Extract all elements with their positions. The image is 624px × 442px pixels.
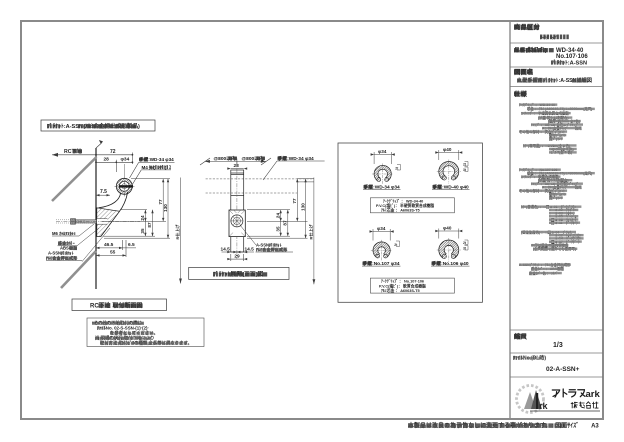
svg-text:7.5: 7.5 [100,189,107,195]
svg-text:14.5: 14.5 [245,247,255,253]
left leader labels [46,224,110,262]
ring WD-40 top-right [437,160,461,184]
svg-text:@800以内: @800以内 [214,155,236,162]
right vertical dims middle view [247,178,314,285]
title block: 縮尺 [514,331,563,349]
dim 72 top [96,153,132,165]
wall face line [95,148,97,289]
svg-text:P.V.C(塩ﾋﾞ)： 軟質合成樹脂: P.V.C(塩ﾋﾞ)： 軟質合成樹脂 [379,283,426,288]
dim 28 / phi34 [96,160,132,172]
logo text 株式会社 (pseudo-kanji strokes) [571,402,599,409]
svg-text:ｱﾙﾐ芯金 ： A6063S-T5: ｱﾙﾐ芯金 ： A6063S-T5 [381,208,420,213]
bracket wall plate + hatched section [97,208,120,237]
svg-text:6.5: 6.5 [128,242,135,248]
mini thickness label TL [397,165,401,171]
title block row dividers [510,43,603,377]
dim phi40 TR [435,147,462,160]
bottom dims 14.5 14.5 29 [222,252,255,261]
wall break line lower (thick gray diagonal) [61,251,96,288]
svg-text:1/3: 1/3 [553,342,563,349]
ring No.106 bottom-right [437,238,461,262]
svg-text:28: 28 [234,163,240,169]
title block: 商品区分 [514,22,558,40]
title block: 品番(製品名) [514,46,588,67]
leader to A-SSN label [240,225,256,245]
notes box [87,318,204,347]
svg-text:No.107·106: No.107·106 [556,54,588,60]
svg-text:24: 24 [140,215,145,221]
svg-text:130: 130 [300,203,305,211]
anchor hole with washer flower [231,215,243,227]
svg-text:WD-34·40: WD-34·40 [556,48,584,54]
anchor hole slot in plate [97,219,108,225]
mini thickness label BL [396,241,400,247]
svg-text:02-A-SSN+: 02-A-SSN+ [546,366,580,373]
RC下地 取付断面図 box [72,299,167,311]
M4 screw dark bar [120,185,134,187]
wall break line upper (thick gray diagonal) [52,157,97,201]
ring No.107 bottom-left [371,240,392,261]
svg-text:35: 35 [275,226,280,232]
svg-text:29: 29 [234,254,240,260]
svg-text:14.5: 14.5 [221,247,231,253]
svg-text:ark: ark [586,389,601,400]
svg-text:24: 24 [275,213,280,219]
svg-text:φ34: φ34 [121,157,130,163]
svg-text:ｱｰｸｸﾞﾘｯﾌﾟ ： No.107·106: ｱｰｸｸﾞﾘｯﾌﾟ ： No.107·106 [381,279,424,284]
svg-text:72: 72 [110,149,116,155]
@800以内 dim line [200,155,271,165]
pseudo-glyph ink overlay for CJK text [46,25,587,428]
svg-text:ｱﾙﾐ芯金 ： A6063S-T5: ｱﾙﾐ芯金 ： A6063S-T5 [381,288,420,293]
label box bracket A-SSN top-left [41,120,155,131]
dim phi40 BR [435,225,462,238]
svg-text:φ40: φ40 [443,225,452,230]
bracket arm curved [99,193,121,208]
section cut mark top [96,141,103,149]
svg-text:rk: rk [539,401,549,411]
mini thickness label TR [465,162,469,172]
anchor bolt M6 [56,219,140,225]
right vertical dims of section view [102,178,181,284]
dim 7.5 [96,194,110,196]
svg-text:77: 77 [158,199,163,205]
handrail circle section [115,164,135,197]
svg-text:@800以内: @800以内 [242,155,264,162]
title block: 図面名 [514,67,592,84]
svg-text:R仕上げ: R仕上げ [174,224,180,240]
svg-text:φ34: φ34 [377,226,386,231]
RC下地 label with arrow [52,147,96,157]
spec block 2 (No.107/106) [519,167,592,251]
svg-text:46.5: 46.5 [104,242,114,248]
handrail hidden dashed lines [206,161,314,259]
ブラケット展開(正面)図 box [189,267,289,279]
svg-text:55: 55 [110,250,116,256]
svg-text:φ34: φ34 [378,149,387,154]
bracket stem front view [231,170,244,252]
svg-text:28: 28 [104,157,110,163]
mid text box [370,198,454,213]
svg-text:ｱｰｸｸﾞﾘｯﾌﾟ ： WD-34·40: ｱｰｸｸﾞﾘｯﾌﾟ ： WD-34·40 [383,198,423,203]
svg-text:35: 35 [140,228,145,234]
logo gear mark [517,386,544,413]
logo block [517,386,601,413]
logo text アトラス (vector strokes) [552,389,585,397]
dim phi34 BL [370,226,394,241]
ring WD-34 top-left [372,163,393,184]
spec block 3 (bracket) [519,262,571,275]
mini thickness label BR [465,240,469,250]
svg-text:R仕上げ: R仕上げ [307,224,313,240]
spec block 1 (WD-34/40) [519,102,592,155]
svg-text:77: 77 [292,198,297,204]
dim 28 [227,163,247,170]
svg-text:ﾌﾞﾗｹｯﾄ:A-SSN: ﾌﾞﾗｹｯﾄ:A-SSN [551,59,587,67]
手摺 label middle view [263,155,325,180]
dim phi34 TL [371,149,395,164]
bottom dims 46.5 / 6.5 / 55 [96,240,136,257]
svg-text:87: 87 [147,222,152,228]
svg-text:P.V.C(塩ﾋﾞ)： 半硬質軟質合成樹脂: P.V.C(塩ﾋﾞ)： 半硬質軟質合成樹脂 [376,203,434,208]
svg-text:87: 87 [282,220,287,226]
mounting plate front [229,210,245,237]
title block: ファイルNo [513,355,580,374]
svg-text:φ40: φ40 [443,147,452,152]
labels 手摺 WD-34 / M4ビス with leaders [130,156,175,185]
svg-text:130: 130 [163,204,168,212]
title block panel left border [509,21,511,419]
bottom text box [370,278,454,293]
